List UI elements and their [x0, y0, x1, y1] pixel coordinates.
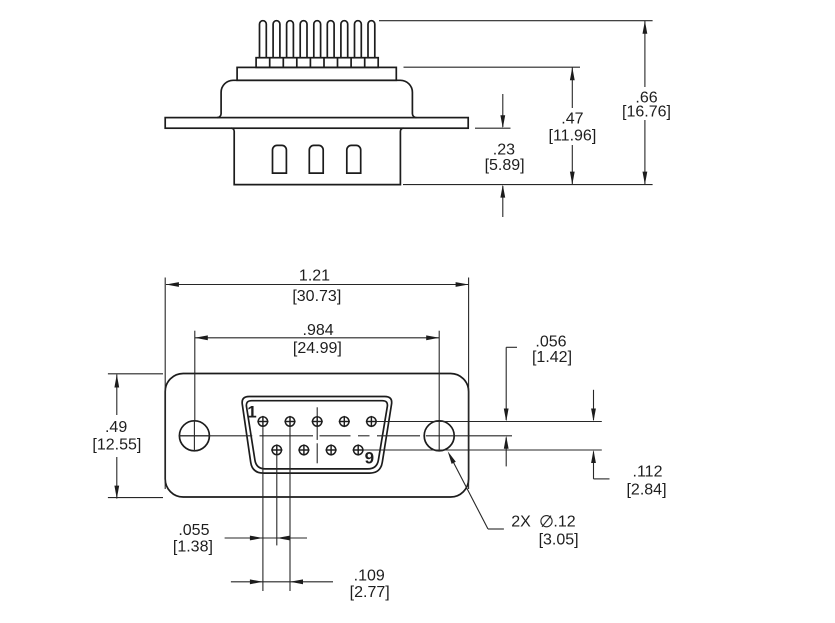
extension line pin2 column: [289, 427, 291, 591]
pin P1 side: [260, 21, 267, 58]
svg-text:[1.38]: [1.38]: [173, 539, 213, 556]
label pin 1: [247, 403, 256, 422]
mounting hole right: [424, 421, 454, 451]
svg-text:.12: .12: [553, 513, 575, 530]
svg-text:[5.89]: [5.89]: [485, 157, 525, 174]
svg-text:.984: .984: [303, 322, 334, 339]
extension line bottom pin row right: [363, 449, 602, 451]
dimension .109 [2.77]: [231, 567, 390, 601]
pin 4 front: [339, 416, 350, 427]
svg-text:.47: .47: [561, 111, 583, 128]
mounting flange (side): [165, 118, 468, 129]
svg-text:.056: .056: [535, 333, 566, 350]
extension line top pin row right: [376, 421, 602, 423]
svg-text:.23: .23: [493, 142, 515, 159]
svg-text:[3.05]: [3.05]: [539, 532, 579, 549]
dimension .23 [5.89]: [485, 94, 525, 217]
dimension .49 [12.55]: [92, 374, 163, 499]
svg-text:[30.73]: [30.73]: [292, 288, 341, 305]
pin P5 side: [314, 21, 321, 58]
slot 1: [273, 145, 287, 173]
svg-text:.49: .49: [105, 419, 127, 436]
pin P7 side: [341, 21, 348, 58]
dimension .47 [11.96]: [549, 67, 597, 184]
svg-text:[1.42]: [1.42]: [532, 349, 572, 366]
pin 5 front: [366, 416, 377, 427]
label pin 9: [365, 448, 374, 467]
insulator block: [237, 67, 396, 80]
mounting hole left: [179, 421, 210, 451]
dimension .984 [24.99]: [195, 322, 439, 421]
svg-text:[12.55]: [12.55]: [92, 437, 141, 454]
extension line insulator-top: [404, 66, 581, 68]
svg-text:[11.96]: [11.96]: [549, 128, 597, 145]
horizontal centerline: [179, 435, 512, 437]
pin P3 side: [287, 21, 294, 58]
pin 8 front: [326, 444, 337, 455]
connector body: [217, 80, 416, 117]
extension line pin-top: [379, 20, 653, 22]
front flange: [165, 374, 468, 498]
pin base strip: [256, 58, 378, 68]
pin 7 front: [298, 444, 309, 455]
pin 2 front: [284, 416, 295, 427]
pin 6 front: [271, 444, 282, 455]
pin P9 side: [368, 21, 375, 58]
extension line pin1 column: [262, 427, 264, 591]
svg-text:.109: .109: [354, 567, 385, 584]
pin P4 side: [300, 21, 307, 58]
shell inner outline: [246, 401, 387, 469]
pin 3 front: [312, 416, 323, 427]
dimension .055 [1.38]: [173, 522, 307, 556]
shell outer outline: [242, 397, 392, 474]
svg-text:.112: .112: [633, 463, 663, 480]
slot 3: [347, 145, 361, 173]
pin P8 side: [355, 21, 362, 58]
extension line flange-bottom: [475, 127, 511, 129]
leader 2X dia .12 [3.05]: [448, 451, 579, 548]
svg-text:[2.77]: [2.77]: [350, 584, 390, 601]
svg-text:2X: 2X: [511, 514, 531, 531]
dimension .112 [2.84]: [591, 390, 666, 499]
vertical centerline: [316, 407, 318, 463]
pin P6 side: [327, 21, 334, 58]
dimension 1.21 [30.73]: [165, 268, 468, 490]
svg-text:1: 1: [247, 403, 256, 422]
dimension .66 [16.76]: [622, 21, 671, 185]
svg-text:9: 9: [365, 448, 374, 467]
pin P2 side: [273, 21, 280, 58]
pin 1 front: [257, 416, 268, 427]
pin 9 front: [353, 444, 364, 455]
svg-text:[24.99]: [24.99]: [293, 340, 342, 357]
svg-text:1.21: 1.21: [299, 268, 330, 285]
svg-text:.055: .055: [178, 522, 209, 539]
extension line pin6 column: [276, 456, 278, 546]
extension line bottom: [403, 184, 653, 186]
slot 2: [309, 145, 323, 173]
lower shell (side): [231, 128, 403, 184]
dimension .056 [1.42]: [504, 333, 572, 466]
svg-text:[16.76]: [16.76]: [622, 103, 671, 120]
svg-text:[2.84]: [2.84]: [626, 481, 666, 498]
